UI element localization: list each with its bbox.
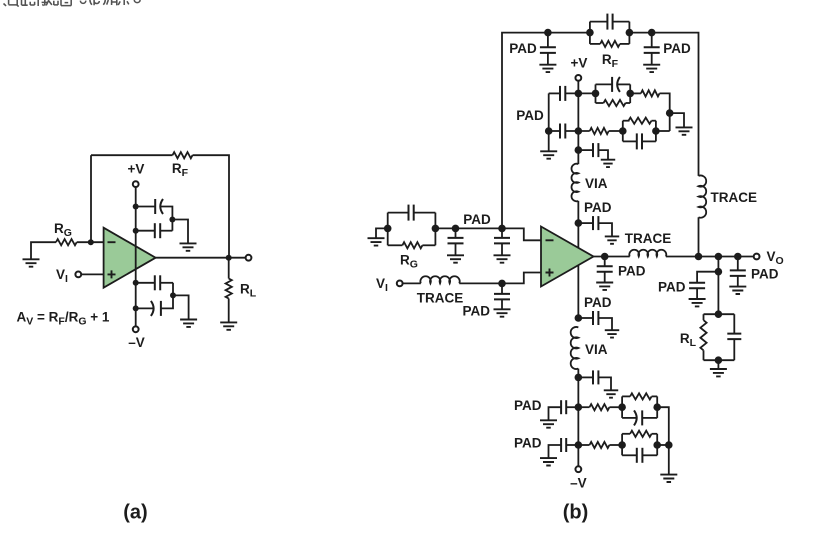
- junction row D box left (b): [618, 441, 626, 449]
- junction row A box right (b): [626, 90, 634, 98]
- junction row B box left (b): [619, 127, 627, 135]
- wire box C res branch right (b): [652, 395, 658, 397]
- junction RL box bottom (b): [715, 356, 723, 364]
- wire row D to box (b): [609, 444, 622, 446]
- wire output PAD to ground (b): [604, 272, 606, 283]
- junction stub cap 1 (b): [575, 146, 583, 154]
- wire cap3 left lead (a): [136, 282, 155, 284]
- capacitor PAD in 3 (b): [494, 294, 510, 300]
- wire top rail segment (b): [548, 32, 590, 34]
- inductor TRACE output (b): [629, 250, 666, 257]
- resistor series row A (b): [641, 90, 660, 96]
- wire cap4 left lead (a): [136, 307, 154, 309]
- wire row D to right vertical (b): [657, 444, 669, 446]
- wire trace to plus input (b): [459, 273, 541, 284]
- wire stub cap3 lead (b): [578, 317, 593, 319]
- capacitor box D (b): [636, 448, 638, 463]
- svg-text:VI: VI: [376, 276, 388, 294]
- junction RG box left (b): [384, 225, 392, 233]
- resistor series row D (b): [590, 442, 610, 448]
- junction row B box right (b): [652, 127, 660, 135]
- wire output (a): [156, 257, 246, 259]
- wire box B cap branch left (b): [623, 140, 637, 142]
- wire row A left segment (b): [549, 92, 560, 94]
- wire VI to noninverting input (a): [82, 273, 104, 275]
- wire stub cap4 lead (b): [578, 376, 593, 378]
- svg-text:TRACE: TRACE: [625, 231, 672, 246]
- junction rail/PAD right (b): [648, 29, 656, 37]
- ground RL (b): [710, 369, 727, 376]
- wire box D res branch right (b): [652, 433, 658, 435]
- capacitor stub 2 (b): [592, 216, 594, 230]
- ground +V net (b): [676, 127, 693, 134]
- wire row B cap to main (b): [565, 130, 589, 132]
- ground PAD load (b): [689, 299, 706, 306]
- ground PAD top-right (b): [643, 65, 660, 72]
- svg-text:VO: VO: [767, 249, 784, 267]
- ground RL (a): [220, 322, 237, 329]
- terminal +V (b): [575, 75, 581, 81]
- wire +V net ground stub (b): [670, 113, 684, 127]
- junction row C box left (b): [618, 403, 626, 411]
- svg-text:RF: RF: [602, 52, 619, 70]
- svg-text:VIA: VIA: [585, 342, 608, 357]
- inductor TRACE feedback (b): [699, 175, 707, 217]
- svg-text:RF: RF: [172, 161, 189, 179]
- wire box C right vertical (b): [656, 396, 658, 418]
- wire box A left vertical (b): [595, 84, 597, 103]
- wire PAD in2 lead (b): [501, 228, 503, 238]
- capacitor stub 3 (b): [592, 311, 594, 325]
- wire RG box left vertical (b): [387, 213, 389, 246]
- wire PAD row D ground stub (b): [549, 445, 562, 458]
- terminal VO (b): [754, 254, 760, 260]
- junction row B main (b): [575, 127, 583, 135]
- wire output to terminal (b): [666, 256, 754, 258]
- wire PAD row D lead (b): [566, 444, 578, 446]
- wire RF res branch right (b): [620, 43, 630, 45]
- junction row C main (b): [575, 403, 583, 411]
- junction row D main (b): [575, 441, 583, 449]
- wire inverting rail (b): [435, 228, 541, 240]
- capacitor box B (b): [636, 133, 638, 149]
- junction output PAD (b): [601, 253, 609, 261]
- wire PAD load lead (b): [697, 272, 718, 283]
- wire box D cap branch right (b): [642, 454, 657, 456]
- wire box C cap branch right (b): [642, 417, 657, 419]
- capacitor PAD in 2 (b): [494, 238, 510, 244]
- resistor RF (a): [173, 152, 193, 158]
- resistor RF (b): [600, 41, 620, 47]
- terminal +V (a): [133, 181, 139, 187]
- wire box A right vertical (b): [629, 84, 631, 103]
- junction stub cap 4 (b): [575, 374, 583, 382]
- wire bottom caps ground stub (a): [173, 295, 189, 319]
- wire RG cap branch right (b): [414, 212, 436, 214]
- ground PAD in 2 (b): [494, 255, 511, 262]
- wire row A cap to main (b): [565, 92, 595, 94]
- svg-text:–V: –V: [128, 335, 145, 350]
- caption text (cropped): [4, 0, 141, 6]
- resistor RL (b): [700, 320, 706, 350]
- capacitor PAD load (b): [689, 283, 705, 289]
- junction PAD in 2 / feedback (b): [498, 225, 506, 233]
- ground PAD output (b): [596, 283, 613, 290]
- wire PAD in3 lead (b): [501, 283, 503, 294]
- capacitor PAD +V upper (b): [559, 86, 561, 101]
- U1b minus input marker: [546, 239, 554, 241]
- op-amp U1 (b): [541, 227, 594, 287]
- svg-text:PAD: PAD: [514, 436, 542, 451]
- wire box C left vertical (b): [621, 396, 623, 418]
- inductor TRACE input (b): [420, 276, 459, 283]
- resistor RG (a): [56, 239, 77, 245]
- wire RL top lead (b): [703, 314, 705, 320]
- wire box D right vertical (b): [656, 434, 658, 456]
- wire stub cap4 to ground (b): [598, 377, 611, 390]
- inductor VIA +V (b): [572, 164, 579, 202]
- wire top caps ground stub (a): [172, 220, 188, 244]
- junction output PAD right (b): [734, 253, 742, 261]
- svg-text:TRACE: TRACE: [417, 290, 464, 305]
- ground PAD row C (b): [540, 420, 557, 427]
- inductor VIA -V (b): [571, 327, 579, 369]
- wire RG ground stub (b): [376, 228, 388, 238]
- wire RL branch vertical (b): [717, 257, 719, 315]
- capacitor PAD top-left (b): [540, 47, 556, 53]
- terminal -V (a): [133, 326, 139, 332]
- wire +V down to row A (b): [577, 81, 579, 93]
- wire VIA to pin (b): [577, 201, 579, 223]
- wire PAD row C ground stub (b): [549, 407, 562, 420]
- svg-text:PAD: PAD: [516, 108, 544, 123]
- resistor RL (a): [226, 279, 232, 299]
- svg-text:RL: RL: [240, 282, 257, 300]
- junction right vertical row D (b): [665, 441, 673, 449]
- junction stub cap 2 (b): [575, 219, 583, 227]
- svg-text:–V: –V: [570, 475, 587, 490]
- junction PAD in 1 (b): [452, 225, 460, 233]
- capacitor stub 4 (b): [592, 370, 594, 384]
- junction rail/RF box right (b): [626, 29, 634, 37]
- wire RG res branch left (b): [388, 244, 403, 246]
- capacitor bypass2 +V (a): [154, 223, 156, 238]
- U1 minus input marker: [108, 241, 116, 243]
- junction row A box left (b): [592, 90, 600, 98]
- wire row B to box (b): [609, 130, 623, 132]
- capacitor PAD +V lower (b): [559, 124, 561, 139]
- wire box B right vertical (b): [655, 121, 657, 142]
- svg-text:PAD: PAD: [663, 41, 691, 56]
- wire feedback top right (a): [193, 155, 230, 258]
- capacitor PAD row C (b): [560, 400, 562, 414]
- ground RG (a): [23, 259, 40, 266]
- wire RG to inverting input (a): [77, 241, 104, 243]
- wire stub cap2 to ground (b): [598, 223, 612, 236]
- wire PAD load to ground (b): [696, 288, 698, 299]
- wire cap2 left lead (a): [136, 230, 155, 232]
- wire VIA to row C (b): [577, 369, 579, 466]
- svg-text:PAD: PAD: [463, 212, 491, 227]
- svg-text:VIA: VIA: [585, 176, 608, 191]
- wire output from apex (b): [594, 256, 630, 258]
- wire PAD left cap to ground (b): [547, 53, 549, 65]
- wire supply vertical (a): [135, 187, 137, 326]
- svg-text:(b): (b): [563, 502, 589, 524]
- junction bottom caps to ground (a): [170, 292, 176, 298]
- junction RG/feedback (a): [88, 239, 94, 245]
- terminal VI (b): [397, 281, 403, 287]
- wire RL bottom lead (b): [703, 350, 705, 360]
- junction RL box top (b): [715, 310, 723, 318]
- ground PAD in 3 (b): [494, 309, 511, 316]
- wire stub cap2 lead (b): [578, 222, 593, 224]
- svg-text:PAD: PAD: [514, 398, 542, 413]
- wire VI to trace (b): [403, 282, 421, 284]
- junction supply/cap2 (a): [133, 228, 139, 234]
- wire main vertical +V section (b): [577, 93, 579, 164]
- capacitor bypass1 -V (a): [154, 275, 156, 290]
- svg-text:RG: RG: [54, 221, 72, 239]
- wire PAD row C lead (b): [566, 406, 578, 408]
- junction PAD left row B (b): [545, 127, 553, 135]
- svg-text:+V: +V: [571, 56, 588, 71]
- wire box D cap branch left (b): [622, 454, 637, 456]
- wire RF res branch left (b): [590, 43, 600, 45]
- wire feedback top left (a): [91, 154, 173, 156]
- junction row C box right (b): [653, 403, 661, 411]
- svg-text:RL: RL: [680, 331, 697, 349]
- wire RF cap branch right (b): [613, 21, 630, 23]
- wire RG cap branch left (b): [388, 212, 409, 214]
- svg-text:PAD: PAD: [462, 304, 490, 319]
- svg-text:AV = RF/RG + 1: AV = RF/RG + 1: [17, 310, 110, 328]
- junction PAD load (b): [715, 268, 723, 276]
- wire PAD in1 to ground (b): [455, 243, 457, 255]
- capacitor CF stray (b): [606, 14, 608, 30]
- wire stub cap1 lead (b): [578, 149, 593, 151]
- svg-text:VI: VI: [56, 267, 68, 285]
- wire RG res branch right (b): [422, 244, 435, 246]
- junction supply/cap3 (a): [133, 280, 139, 286]
- resistor box B (b): [629, 118, 652, 124]
- resistor box A (b): [604, 100, 626, 106]
- wire RL box bottom (b): [704, 359, 735, 361]
- junction feedback/output (b): [695, 253, 703, 261]
- wire RL bottom lead (a): [228, 299, 230, 323]
- wire box D res branch left (b): [622, 433, 630, 435]
- junction stub cap 3 (b): [575, 314, 583, 322]
- wire feedback left vertical (b): [502, 33, 548, 229]
- wire PAD left vertical (b): [548, 93, 550, 151]
- op-amp U1 (a): [104, 228, 156, 288]
- resistor RG (b): [402, 242, 422, 248]
- wire RG box right vertical (b): [434, 213, 436, 246]
- U1b plus input marker: [546, 269, 554, 277]
- resistor series row B (b): [590, 128, 609, 134]
- capacitor bypass2 -V (a): [151, 301, 154, 316]
- wire box C cap branch left (b): [622, 417, 637, 419]
- wire feedback left vertical (a): [90, 155, 92, 242]
- ground PAD left (b): [540, 151, 557, 158]
- wire +V pin into op-amp (b): [577, 223, 579, 252]
- wire RL top lead (a): [228, 258, 230, 279]
- junction supply/cap4 (a): [133, 305, 139, 311]
- wire -V pin into op-amp (b): [577, 261, 579, 318]
- junction supply/cap1 (a): [133, 204, 139, 210]
- svg-text:(a): (a): [123, 502, 147, 524]
- wire PAD VO lead (b): [737, 257, 739, 271]
- svg-text:PAD: PAD: [751, 266, 779, 281]
- svg-text:PAD: PAD: [509, 41, 537, 56]
- svg-text:PAD: PAD: [658, 279, 686, 294]
- wire PAD right cap to ground (b): [651, 53, 653, 65]
- wire PAD in3 to ground (b): [501, 299, 503, 309]
- resistor series row C (b): [590, 404, 610, 410]
- junction rail/PAD left (b): [544, 29, 552, 37]
- junction right vertical ground stub (b): [666, 109, 674, 117]
- wire cap1 left lead (a): [136, 206, 156, 208]
- wire top rail right segment (b): [629, 33, 698, 176]
- capacitor PAD VO (b): [730, 270, 746, 276]
- ground stub 4 (b): [604, 390, 618, 397]
- wire CL top lead (b): [733, 314, 735, 333]
- svg-text:RG: RG: [400, 253, 418, 271]
- wire box C res branch left (b): [622, 395, 630, 397]
- wire RL box top (b): [704, 313, 735, 315]
- capacitor PAD output (b): [597, 266, 613, 272]
- capacitor PAD in 1 (b): [448, 238, 464, 244]
- wire PAD in1 lead (b): [455, 228, 457, 238]
- resistor box D (b): [630, 431, 652, 437]
- ground stub 3 (b): [605, 330, 619, 337]
- svg-text:PAD: PAD: [584, 295, 612, 310]
- junction PAD in 3 (b): [498, 280, 506, 288]
- capacitor PAD top-right (b): [644, 47, 660, 53]
- wire row D to series R (b): [578, 444, 589, 446]
- wire cap2 right lead (a): [160, 230, 172, 232]
- wire box D left vertical (b): [621, 434, 623, 456]
- ground PAD in 1 (b): [447, 255, 464, 262]
- wire RF cap branch left (b): [590, 21, 608, 23]
- wire RF box right vertical (b): [628, 22, 630, 44]
- ground bottom bypass (a): [180, 320, 197, 327]
- junction top caps to ground (a): [169, 217, 175, 223]
- junction output RL branch (b): [715, 253, 723, 261]
- wire box B left vertical (b): [622, 121, 624, 142]
- wire cap1 right lead (a): [161, 207, 173, 231]
- wire PAD right cap lead (b): [651, 33, 653, 48]
- junction row A main (b): [575, 90, 583, 98]
- wire PAD in2 to ground (b): [501, 243, 503, 255]
- ground -V net (b): [660, 475, 677, 482]
- wire RG ground stub (a): [31, 242, 56, 259]
- junction output/RL (a): [226, 255, 232, 261]
- wire box A cap branch (b): [596, 83, 613, 85]
- wire stub cap3 to ground (b): [598, 318, 612, 330]
- ground PAD VO (b): [729, 287, 746, 294]
- wire box A cap branch right (b): [618, 83, 630, 85]
- capacitor stub 1 (b): [592, 143, 594, 157]
- wire box A res branch right (b): [626, 102, 631, 104]
- wire box A res branch left (b): [596, 102, 604, 104]
- capacitor bypass1 +V (a): [154, 199, 156, 214]
- U1 plus input marker: [108, 270, 116, 278]
- capacitor RG stray (b): [408, 205, 410, 221]
- wire row C to box (b): [609, 406, 622, 408]
- wire box B cap branch right (b): [642, 140, 656, 142]
- wire row B left segment (b): [549, 130, 560, 132]
- ground top bypass (a): [180, 243, 197, 250]
- terminal -V (b): [575, 466, 581, 472]
- wire row A to series R (b): [630, 92, 641, 94]
- junction row D box right (b): [653, 441, 661, 449]
- wire output PAD lead (b): [604, 257, 606, 267]
- wire box B res branch left (b): [623, 120, 630, 122]
- svg-text:TRACE: TRACE: [711, 190, 758, 205]
- wire row B to right vertical (b): [656, 130, 670, 132]
- capacitor box C (b): [634, 410, 637, 425]
- resistor box C (b): [630, 393, 652, 399]
- wire trace to output node (b): [698, 217, 700, 256]
- wire RF box left vertical (b): [589, 22, 591, 44]
- ground stub 2 (b): [605, 236, 619, 243]
- svg-text:PAD: PAD: [618, 263, 646, 278]
- ground RG (b): [368, 238, 385, 245]
- wire cap4 right lead (a): [161, 283, 173, 309]
- ground stub 1 (b): [601, 160, 615, 167]
- terminal VI (a): [75, 272, 81, 278]
- wire row C to right vertical (b): [657, 407, 669, 474]
- wire cap3 right lead (a): [160, 282, 173, 284]
- svg-text:PAD: PAD: [584, 200, 612, 215]
- wire stub cap1 to ground (b): [598, 150, 608, 160]
- wire PAD VO to ground (b): [737, 276, 739, 287]
- ground PAD row D (b): [540, 458, 557, 465]
- wire row A to right vertical (b): [660, 93, 670, 131]
- capacitor box A (b): [611, 77, 613, 92]
- wire RL to ground (b): [717, 360, 719, 369]
- wire PAD left cap lead (b): [547, 33, 549, 48]
- wire row C to series R (b): [578, 406, 589, 408]
- capacitor PAD row D (b): [560, 438, 562, 452]
- capacitor load stray (b): [727, 334, 741, 340]
- junction RG box right (b): [432, 225, 440, 233]
- wire box B res branch right (b): [652, 120, 656, 122]
- terminal output (a): [246, 255, 252, 261]
- junction rail/RF box left (b): [586, 29, 594, 37]
- svg-text:+V: +V: [128, 162, 145, 177]
- wire CL bottom lead (b): [733, 339, 735, 360]
- ground PAD top-left (b): [539, 65, 556, 72]
